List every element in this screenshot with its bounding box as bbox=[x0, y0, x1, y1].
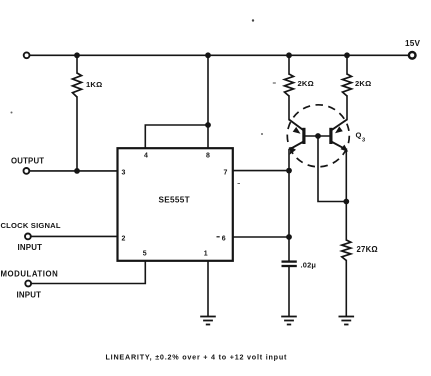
svg-text:3: 3 bbox=[362, 138, 365, 144]
svg-text:OUTPUT: OUTPUT bbox=[11, 157, 44, 166]
svg-text:7: 7 bbox=[224, 170, 228, 177]
svg-text:3: 3 bbox=[122, 170, 126, 177]
svg-text:.02μ: .02μ bbox=[301, 261, 317, 270]
svg-text:8: 8 bbox=[206, 152, 210, 159]
svg-text:1: 1 bbox=[204, 251, 208, 258]
svg-text:4: 4 bbox=[144, 152, 148, 159]
svg-text:6: 6 bbox=[222, 236, 226, 243]
svg-text:INPUT: INPUT bbox=[17, 291, 42, 300]
svg-text:LINEARITY, ±0.2% over + 4 to +: LINEARITY, ±0.2% over + 4 to +12 volt in… bbox=[106, 352, 288, 361]
svg-text:1KΩ: 1KΩ bbox=[86, 80, 102, 89]
svg-text:INPUT: INPUT bbox=[18, 243, 43, 252]
svg-text:CLOCK SIGNAL: CLOCK SIGNAL bbox=[1, 221, 61, 230]
svg-text:2KΩ: 2KΩ bbox=[298, 79, 314, 88]
svg-text:2: 2 bbox=[122, 236, 126, 243]
svg-text:5: 5 bbox=[143, 251, 147, 258]
svg-text:2KΩ: 2KΩ bbox=[355, 79, 371, 88]
svg-text:SE555T: SE555T bbox=[159, 195, 190, 204]
svg-text:15V: 15V bbox=[405, 39, 421, 48]
svg-text:27KΩ: 27KΩ bbox=[357, 245, 378, 254]
svg-text:Q: Q bbox=[356, 131, 362, 140]
svg-text:MODULATION: MODULATION bbox=[1, 270, 59, 279]
